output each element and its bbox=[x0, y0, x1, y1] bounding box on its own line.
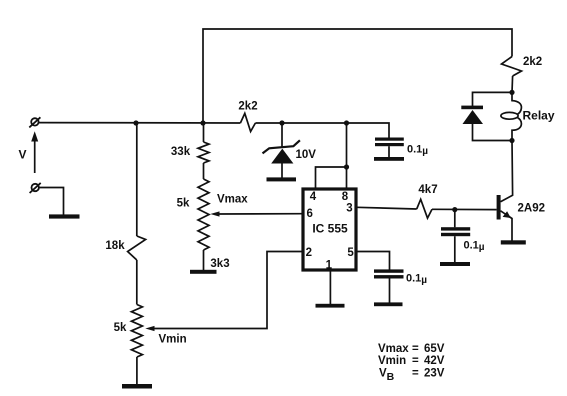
wire: Vmin pot to ground bbox=[136, 357, 138, 384]
wire: pin 3 to 4k7 bbox=[357, 207, 417, 209]
wire: 3k3 to ground bbox=[203, 250, 205, 270]
svg-text:8: 8 bbox=[342, 191, 349, 203]
relay coil (with label Relay) bbox=[501, 92, 555, 140]
svg-text:6: 6 bbox=[306, 208, 312, 220]
wiper arrow + label Vmin bbox=[145, 252, 301, 346]
ground: input return bbox=[49, 214, 80, 218]
pin 5 bbox=[347, 247, 354, 259]
label 5k (Vmin pot) bbox=[114, 322, 127, 334]
ground: C3 bbox=[440, 262, 470, 266]
wire: pin 5 to C2 bbox=[357, 252, 390, 270]
label 0.1u (C3) bbox=[464, 240, 485, 254]
wire: rail down to pin 8 bbox=[346, 123, 348, 188]
svg-text:2: 2 bbox=[306, 247, 312, 259]
wire: junction to C3 bbox=[454, 210, 456, 228]
svg-text:1: 1 bbox=[326, 260, 333, 272]
svg-text:10V: 10V bbox=[296, 149, 317, 161]
svg-text:42V: 42V bbox=[424, 355, 445, 367]
terminal: - input (circle with slash) bbox=[30, 183, 41, 193]
svg-text:V: V bbox=[18, 148, 26, 162]
svg-text:Vmax: Vmax bbox=[378, 343, 409, 355]
ground: zener bbox=[267, 177, 297, 181]
pin 8 bbox=[342, 191, 349, 203]
terminal: + input (circle with slash) bbox=[29, 117, 40, 127]
zener diode 10V bbox=[263, 140, 300, 177]
ground: pin 1 bbox=[316, 304, 345, 308]
label 3k3 bbox=[210, 258, 229, 270]
node: 18k branch junction bbox=[133, 120, 138, 125]
svg-text:5k: 5k bbox=[114, 322, 127, 334]
ground: 3k3 bbox=[190, 270, 217, 274]
wire: - input to ground bbox=[39, 188, 64, 215]
label 4k7 bbox=[418, 184, 437, 196]
wire: 18k branch upper lead bbox=[136, 123, 138, 236]
label 0.1u (C1) bbox=[407, 144, 428, 158]
label 33k bbox=[171, 146, 191, 158]
svg-text:2k2: 2k2 bbox=[523, 56, 542, 68]
label 0.1u (C2) bbox=[406, 273, 427, 287]
svg-text:=: = bbox=[412, 355, 419, 367]
node: base RC junction bbox=[452, 207, 457, 212]
ground: C1 bbox=[374, 157, 404, 161]
svg-text:5: 5 bbox=[347, 247, 354, 259]
label 10V bbox=[296, 149, 317, 161]
node: pin4/pin8 tie junction bbox=[344, 164, 349, 169]
pin 2 bbox=[306, 247, 312, 259]
label 2k2 (right) bbox=[523, 56, 542, 68]
svg-text:33k: 33k bbox=[171, 146, 191, 158]
text: Vmin = 42V bbox=[378, 355, 445, 367]
capacitor C2 0.1u (pin 5) bbox=[374, 269, 404, 302]
node: zener branch junction bbox=[279, 120, 284, 125]
label 2k2 (middle) bbox=[238, 101, 257, 113]
resistor 4k7 bbox=[417, 199, 432, 218]
pin 1 bbox=[326, 260, 333, 272]
node: 33k branch junction bbox=[200, 120, 205, 125]
svg-text:0.1µ: 0.1µ bbox=[406, 273, 427, 287]
svg-text:2k2: 2k2 bbox=[238, 101, 257, 113]
svg-text:5k: 5k bbox=[177, 198, 190, 210]
svg-text:3k3: 3k3 bbox=[210, 258, 229, 270]
ground: emitter of Q1 bbox=[501, 240, 526, 244]
wire: diode branch bottom bbox=[473, 124, 513, 141]
ground: C2 bbox=[374, 302, 403, 306]
label 2A92 bbox=[518, 203, 546, 215]
svg-text:=: = bbox=[412, 343, 419, 355]
capacitor C1 0.1u (supply bypass) bbox=[375, 138, 404, 158]
svg-text:Vmax: Vmax bbox=[217, 194, 248, 206]
ground: Vmin pot bbox=[122, 384, 152, 389]
svg-text:3: 3 bbox=[346, 203, 352, 215]
op-amp/timer U1 IC 555 body bbox=[303, 189, 356, 270]
label V with arrow (input voltage) bbox=[18, 131, 38, 173]
wire: 33k to Vmax pot bbox=[203, 163, 205, 179]
resistor 18k bbox=[128, 236, 146, 260]
svg-text:0.1µ: 0.1µ bbox=[464, 240, 485, 254]
resistor 2k2 (top middle) bbox=[240, 113, 255, 131]
capacitor C3 0.1u (base) bbox=[441, 227, 470, 262]
pin 4 bbox=[310, 191, 317, 203]
svg-text:18k: 18k bbox=[105, 240, 125, 252]
wire: collector of Q1 up to relay bbox=[501, 141, 513, 202]
wire: top supply rail from 33k branch to relay branch bbox=[203, 29, 512, 123]
wire: zener upper lead bbox=[281, 123, 283, 148]
node: relay top junction bbox=[509, 90, 514, 95]
label 5k (Vmax pot) bbox=[177, 198, 190, 210]
resistor 2k2 (top right, collector load) bbox=[502, 57, 522, 93]
svg-text:=: = bbox=[412, 368, 419, 380]
svg-text:IC 555: IC 555 bbox=[312, 222, 348, 236]
diode D1 (freewheel across relay) bbox=[461, 106, 483, 124]
svg-text:65V: 65V bbox=[424, 343, 445, 355]
wire: rail after 2k2 to bypass cap corner bbox=[255, 123, 389, 138]
wire: 4k7 to base junction bbox=[432, 208, 497, 210]
text: Vmax = 65V bbox=[378, 343, 445, 355]
wire: pin 4 tie to pin 8 bbox=[316, 167, 347, 188]
wire: diode branch top bbox=[473, 92, 513, 106]
svg-text:4: 4 bbox=[310, 191, 317, 203]
label Vmax bbox=[217, 194, 248, 206]
label 18k bbox=[105, 240, 125, 252]
potentiometer 5k (Vmax) + resistor 3k3 chain bbox=[198, 179, 209, 250]
text: VB = 23V bbox=[379, 368, 445, 384]
wire: 33k upper lead bbox=[203, 123, 205, 142]
svg-text:2A92: 2A92 bbox=[518, 203, 546, 215]
svg-text:0.1µ: 0.1µ bbox=[407, 144, 428, 158]
svg-text:Vmin: Vmin bbox=[159, 334, 187, 346]
node: relay bottom junction bbox=[509, 138, 514, 143]
transistor Q1 2A92 bbox=[497, 195, 512, 241]
wire: 18k to Vmin pot bbox=[136, 260, 138, 305]
wiper arrow Vmax to pin 6 bbox=[210, 211, 301, 216]
potentiometer 5k (Vmin) bbox=[131, 305, 142, 358]
wire: pin 1 to ground bbox=[329, 271, 331, 305]
pin 6 bbox=[306, 208, 312, 220]
wire: main input rail bbox=[39, 122, 241, 124]
svg-text:23V: 23V bbox=[424, 368, 445, 380]
svg-text:Relay: Relay bbox=[523, 109, 555, 123]
resistor 33k bbox=[198, 142, 209, 163]
node: pin8/cap rail junction bbox=[344, 120, 349, 125]
svg-text:Vmin: Vmin bbox=[378, 355, 406, 367]
svg-text:4k7: 4k7 bbox=[418, 184, 437, 196]
pin 3 bbox=[346, 203, 352, 215]
